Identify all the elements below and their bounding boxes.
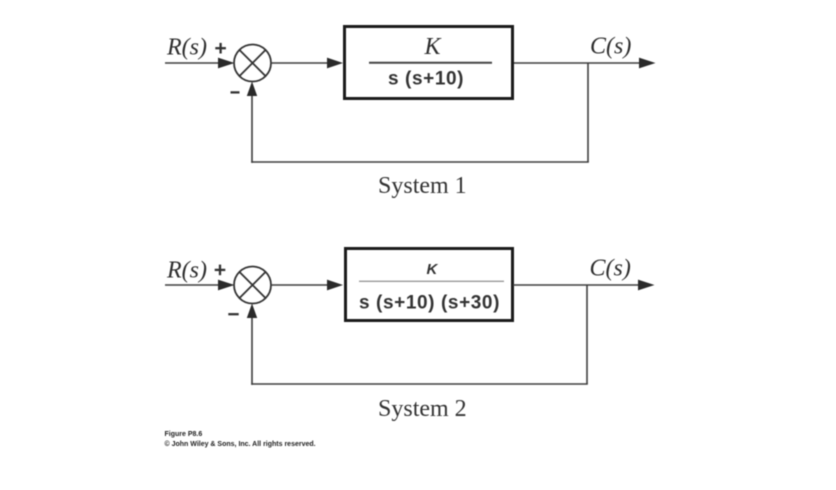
block G2: K / s(s+10)(s+30) [346,249,513,321]
label K numerator (System 1) [424,34,443,60]
label System 1 [378,173,467,199]
arrowhead into S2 bottom [247,304,257,319]
wire: feedback up segment into S2 [251,315,253,385]
svg-text:K: K [424,34,443,60]
minus sign at S1 [231,91,240,93]
svg-text:C(s): C(s) [590,34,631,60]
label R(s) (System 2) [166,258,207,284]
arrowhead C(s) output (System 1) [639,58,656,69]
plus sign at summing junction S2 [215,265,226,276]
arrowhead into summing junction S2 [218,280,235,291]
svg-text:K: K [427,261,439,278]
svg-text:R(s): R(s) [166,35,207,61]
wire: feedback bottom segment (System 1) [251,161,589,163]
label R(s) (System 1) [166,35,207,61]
arrowhead into block G1 [327,58,343,69]
label denominator s (s+10) (s+30) [359,293,500,314]
svg-text:s (s+10) (s+30): s (s+10) (s+30) [359,293,500,314]
arrowhead into summing junction S1 [218,58,235,69]
svg-text:Figure P8.6: Figure P8.6 [165,431,203,438]
label System 2 [378,396,467,422]
fraction bar (System 2) [359,280,504,282]
label C(s) (System 1) [590,34,631,60]
svg-text:R(s): R(s) [166,258,207,284]
wire: G1 output to C(s) arrow [514,62,640,64]
summing junction S1 [234,45,271,82]
wire: R(s) input line (System 2) [165,284,220,286]
summing junction S2 [234,267,271,304]
node: takeoff point (System 2) [586,285,588,384]
node: takeoff point (System 1) [587,63,589,162]
wire: S2 to block G2 [271,284,330,286]
svg-text:C(s): C(s) [590,256,631,282]
minus sign at S2 [228,313,238,315]
arrowhead C(s) output (System 2) [638,280,655,291]
wire: feedback bottom segment (System 2) [251,383,588,385]
label K numerator (System 2) [427,261,439,278]
wire: G2 output to C(s) arrow [513,284,639,286]
svg-text:System 1: System 1 [378,173,467,199]
wire: S1 to block G1 [271,62,330,64]
label copyright John Wiley [165,440,316,448]
fraction bar (System 1) [369,62,492,64]
plus sign at summing junction S1 [215,43,226,54]
wire: R(s) input line (System 1) [165,62,220,64]
svg-text:s (s+10): s (s+10) [388,69,464,90]
label Figure P8.6 [165,431,203,438]
arrowhead into block G2 [327,280,343,291]
svg-text:© John Wiley & Sons, Inc. All: © John Wiley & Sons, Inc. All rights res… [165,440,316,448]
svg-text:System 2: System 2 [378,396,467,422]
block G1: K / s(s+10) [345,27,513,99]
label denominator s (s+10) [388,69,464,90]
label C(s) (System 2) [590,256,631,282]
arrowhead into S1 bottom [247,82,257,97]
wire: feedback up segment into S1 [251,93,253,163]
